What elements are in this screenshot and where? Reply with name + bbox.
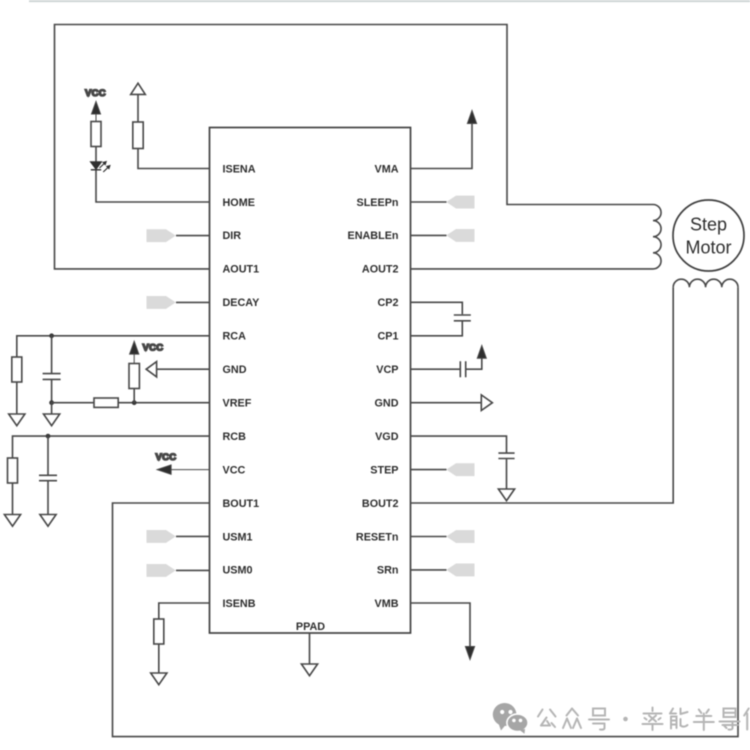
wire GND right pin bbox=[411, 402, 482, 404]
wire SLEEPn bbox=[411, 201, 447, 203]
inductor coil B (motor winding B) bbox=[673, 279, 738, 287]
capacitor C2 (RCB) bbox=[39, 436, 57, 514]
svg-text:RCA: RCA bbox=[223, 331, 247, 343]
公 bbox=[538, 710, 543, 717]
svg-text:Motor: Motor bbox=[685, 238, 731, 258]
input tag SLEEPn bbox=[446, 196, 474, 209]
wire VMA to VM arrow bbox=[411, 124, 473, 169]
率 bbox=[652, 708, 654, 712]
ground (C1) bbox=[44, 414, 60, 426]
power arrow up (VMA supply) bbox=[467, 111, 476, 124]
wire STEP bbox=[411, 469, 447, 471]
input tag SRn bbox=[446, 564, 474, 577]
wire VGD to C5 bbox=[411, 436, 507, 452]
capacitor C4 (VCP) bbox=[460, 361, 465, 377]
svg-text:USM0: USM0 bbox=[223, 565, 253, 577]
svg-text:USM1: USM1 bbox=[223, 531, 253, 543]
node open-arrow up (R2 top terminal) bbox=[131, 83, 146, 122]
power VCC symbol (LED chain) bbox=[92, 102, 101, 122]
capacitor C5 (VGD) bbox=[498, 453, 514, 458]
input tag USM0 bbox=[147, 564, 176, 577]
resistor R2 (ISENA series) bbox=[133, 122, 143, 149]
wire C1 to ground bbox=[51, 403, 53, 414]
svg-text:STEP: STEP bbox=[370, 464, 398, 476]
wire CP2 to C3 bbox=[411, 302, 463, 314]
capacitor C3 (CP2-CP1) bbox=[454, 315, 471, 321]
input tag USM1 bbox=[147, 530, 176, 543]
svg-text:PPAD: PPAD bbox=[296, 621, 325, 633]
wire ISENA pin stub bbox=[138, 149, 210, 169]
svg-text:VCP: VCP bbox=[376, 364, 398, 376]
wire PPAD bbox=[309, 633, 311, 664]
svg-text:BOUT2: BOUT2 bbox=[362, 498, 399, 510]
resistor R7 (ISENB) bbox=[154, 619, 164, 644]
svg-text:VREF: VREF bbox=[223, 398, 252, 410]
ground (C2) bbox=[40, 515, 56, 527]
junction VREF/R4 bbox=[132, 400, 137, 405]
svg-text:VMA: VMA bbox=[375, 163, 399, 175]
junction RCA/C1 bbox=[49, 333, 54, 338]
inductor coil A (motor winding A) bbox=[653, 205, 661, 269]
svg-text:RESETn: RESETn bbox=[356, 531, 399, 543]
svg-text:SLEEPn: SLEEPn bbox=[357, 197, 399, 209]
op-amp U1 (driver IC body) bbox=[210, 128, 411, 634]
wire R1 to LED bbox=[95, 147, 97, 162]
ground (R7) bbox=[151, 673, 167, 685]
wire R4 bottom bbox=[133, 389, 135, 403]
wire USM0 bbox=[176, 569, 210, 571]
svg-text:HOME: HOME bbox=[223, 197, 255, 209]
svg-text:VCC: VCC bbox=[223, 464, 246, 476]
svg-text:GND: GND bbox=[223, 364, 247, 376]
svg-text:GND: GND bbox=[375, 398, 399, 410]
wire R6 to ground bbox=[12, 483, 14, 515]
wire R7 to ground bbox=[158, 644, 160, 673]
power arrow up (VCP) bbox=[477, 346, 486, 359]
capacitor C1 (RCA) bbox=[43, 336, 61, 403]
svg-text:AOUT1: AOUT1 bbox=[223, 264, 260, 276]
svg-text:VCC: VCC bbox=[156, 452, 177, 463]
node open-arrow left (GND) bbox=[146, 362, 156, 377]
wire DECAY bbox=[176, 301, 210, 303]
pin labels U1 right bbox=[348, 163, 399, 610]
resistor R3 (RCA) bbox=[12, 357, 22, 382]
input tag DIR bbox=[147, 229, 176, 242]
wire RCB bbox=[13, 436, 210, 458]
能 bbox=[670, 709, 673, 714]
ground (RCA R3) bbox=[9, 414, 25, 426]
svg-text:ISENA: ISENA bbox=[223, 163, 256, 175]
wire BOUT1 motor-B loop bbox=[113, 287, 739, 736]
junction RCB/C2 bbox=[46, 434, 51, 439]
watermark text strokes bbox=[538, 708, 750, 731]
faint screen edge line bbox=[29, 0, 750, 2]
watermark wechat icon bbox=[493, 703, 528, 734]
wire RCA bbox=[17, 336, 210, 357]
input tag ENABLEn bbox=[446, 229, 474, 242]
svg-text:CP2: CP2 bbox=[377, 297, 398, 309]
svg-text:ISENB: ISENB bbox=[223, 598, 256, 610]
motor M1 circle bbox=[673, 200, 744, 271]
wire DIR bbox=[176, 235, 210, 237]
wire USM1 bbox=[176, 535, 210, 537]
svg-text:AOUT2: AOUT2 bbox=[362, 264, 399, 276]
wire AOUT2 bbox=[411, 268, 654, 270]
power VCC symbol (R4 top) bbox=[130, 341, 139, 363]
input tag RESETn bbox=[446, 530, 474, 543]
node open-arrow right (GND) bbox=[481, 395, 492, 411]
svg-text:VCC: VCC bbox=[143, 343, 164, 354]
svg-text:BOUT1: BOUT1 bbox=[223, 498, 260, 510]
input tag DECAY bbox=[147, 296, 176, 309]
resistor R5 (VREF horizontal) bbox=[94, 398, 118, 407]
svg-text:ENABLEn: ENABLEn bbox=[348, 230, 399, 242]
resistor R4 (VCC pullup) bbox=[129, 364, 139, 389]
ground (PPAD) bbox=[301, 664, 317, 676]
svg-text:DECAY: DECAY bbox=[223, 297, 261, 309]
input tag STEP bbox=[446, 463, 474, 476]
号 bbox=[593, 709, 605, 716]
ground (C5) bbox=[498, 489, 514, 501]
wire C3 to CP1 bbox=[411, 321, 463, 335]
wire HOME pin bbox=[96, 171, 210, 203]
svg-text:Step: Step bbox=[690, 215, 727, 235]
svg-text:VCC: VCC bbox=[85, 88, 106, 99]
wire BOUT2 bbox=[411, 287, 674, 503]
wire GND left pin bbox=[157, 368, 210, 370]
wire VMB to arrow bbox=[411, 603, 471, 646]
wire VCP to C4 bbox=[411, 368, 460, 370]
wire C5 to ground bbox=[506, 459, 508, 489]
wire VREF net bbox=[52, 402, 210, 404]
resistor R1 (LED series) bbox=[91, 122, 101, 147]
svg-text:VGD: VGD bbox=[375, 431, 399, 443]
LED D1 bbox=[91, 161, 110, 172]
wire R3 to ground bbox=[16, 382, 18, 414]
power arrow down (VMB) bbox=[465, 647, 474, 660]
众 bbox=[567, 709, 573, 716]
导 bbox=[724, 709, 736, 718]
junction C1/VREF net bbox=[49, 400, 54, 405]
resistor R6 (RCB) bbox=[8, 458, 18, 483]
svg-text:CP1: CP1 bbox=[377, 331, 398, 343]
wire C4 to arrow bbox=[466, 358, 482, 369]
pin labels U1 left bbox=[223, 163, 261, 610]
wire SRn bbox=[411, 569, 447, 571]
svg-text:RCB: RCB bbox=[223, 431, 247, 443]
svg-text:SRn: SRn bbox=[377, 565, 399, 577]
体 bbox=[744, 709, 749, 716]
power VCC arrow left (VCC pin) bbox=[157, 465, 209, 474]
wire RESETn bbox=[411, 536, 447, 538]
wire AOUT1 motor-A loop bbox=[55, 25, 654, 269]
wire ISENB bbox=[159, 603, 210, 619]
ground (R6) bbox=[4, 515, 20, 527]
wire ENABLEn bbox=[411, 234, 447, 236]
svg-text:DIR: DIR bbox=[223, 230, 242, 242]
半 bbox=[699, 710, 702, 714]
svg-text:VMB: VMB bbox=[375, 598, 399, 610]
